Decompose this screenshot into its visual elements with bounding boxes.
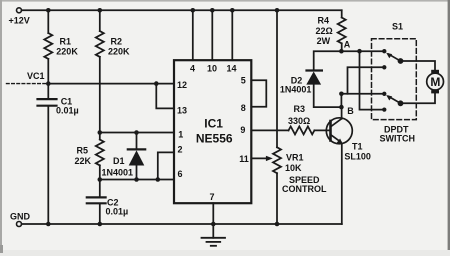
wire: bottom ground rail <box>22 223 342 225</box>
junction dots bottom rail <box>46 222 279 227</box>
svg-text:1: 1 <box>178 130 183 140</box>
wire: pin 6 line <box>100 179 174 181</box>
svg-text:SL100: SL100 <box>344 151 371 161</box>
wire: pin 10 supply <box>211 10 213 60</box>
svg-text:IC1: IC1 <box>204 116 223 130</box>
svg-text:B: B <box>347 106 354 116</box>
GND terminal <box>17 222 22 227</box>
resistor R1 <box>44 10 52 83</box>
svg-text:0.01µ: 0.01µ <box>56 105 79 115</box>
junction on A wire <box>357 49 362 54</box>
node VC1 dashed lead <box>7 83 49 85</box>
resistor R2 <box>96 10 104 132</box>
junction dots pin1 line <box>98 130 139 135</box>
svg-text:R3: R3 <box>294 104 306 114</box>
node A <box>339 49 344 54</box>
svg-text:VR1: VR1 <box>286 153 304 163</box>
wire: A jog to switch contact 4 <box>360 51 385 109</box>
wire: collector to node B <box>341 107 343 119</box>
svg-text:GND: GND <box>10 211 31 221</box>
svg-text:0.01µ: 0.01µ <box>106 206 129 216</box>
svg-text:14: 14 <box>227 63 237 73</box>
svg-text:R4: R4 <box>318 16 330 26</box>
resistor R4 <box>338 10 346 51</box>
svg-text:VC1: VC1 <box>27 71 45 81</box>
svg-text:A: A <box>344 39 351 49</box>
svg-text:CONTROL: CONTROL <box>282 184 327 194</box>
svg-text:22K: 22K <box>75 156 92 166</box>
svg-text:R1: R1 <box>60 37 72 47</box>
wire: pin 4 supply <box>192 10 194 60</box>
wire: B junction to switch contact 3 <box>341 93 384 95</box>
switch lever 1 <box>386 53 400 61</box>
svg-text:T1: T1 <box>352 142 363 152</box>
junction dots top rail <box>46 8 279 13</box>
wire: pins 5-8 bracket <box>251 80 266 107</box>
switch pole 2 <box>398 100 404 106</box>
wire: emitter to ground rail <box>341 144 343 224</box>
diode D1 <box>128 133 145 180</box>
svg-text:330Ω: 330Ω <box>288 116 310 126</box>
wire: pin 14 supply <box>231 10 233 60</box>
svg-text:5: 5 <box>241 76 246 86</box>
wire: pole 2 to motor <box>401 93 436 104</box>
ground symbol <box>202 238 226 246</box>
motor M1 <box>427 70 444 94</box>
junction at B cross <box>339 92 344 97</box>
+12V terminal <box>17 8 22 13</box>
switch pole 1 <box>398 58 404 64</box>
wire: VC1 node to pin 12 <box>48 83 174 85</box>
wire: B up to cross junction <box>340 94 342 107</box>
resistor R3 <box>289 126 315 134</box>
svg-text:R5: R5 <box>77 146 89 156</box>
wire: pin 11 to VR1 wiper <box>251 157 266 159</box>
svg-text:4: 4 <box>190 63 195 73</box>
wire: A to switch contact 1 <box>341 50 384 52</box>
svg-text:11: 11 <box>239 154 249 164</box>
svg-text:10K: 10K <box>285 163 302 173</box>
wire: pin 2 bracket <box>158 152 174 179</box>
svg-text:22Ω: 22Ω <box>316 26 333 36</box>
wire: branch to pin 13 <box>156 84 174 109</box>
wire: +12V down to VR1 <box>276 10 278 147</box>
svg-text:2W: 2W <box>317 36 331 46</box>
op IC1 NE556 box <box>174 60 251 203</box>
diode D2 <box>306 51 341 107</box>
svg-text:+12V: +12V <box>9 16 30 26</box>
svg-text:R2: R2 <box>111 37 123 47</box>
svg-text:8: 8 <box>241 103 246 113</box>
VR1 wiper arrow <box>266 156 273 161</box>
svg-text:2: 2 <box>178 145 183 155</box>
wire: B jog to switch contact 2 <box>348 67 385 94</box>
svg-text:S1: S1 <box>392 21 403 31</box>
svg-text:SWITCH: SWITCH <box>380 134 416 144</box>
wire: pin 9 to R3 <box>251 129 288 131</box>
capacitor C2 <box>87 180 106 225</box>
svg-text:NE556: NE556 <box>196 131 233 145</box>
svg-text:1N4001: 1N4001 <box>280 85 312 95</box>
wire: R3 to T1 base <box>314 129 330 131</box>
svg-text:D1: D1 <box>113 156 125 166</box>
wire: pin 7 to ground <box>212 203 214 238</box>
svg-text:9: 9 <box>240 125 245 135</box>
node B <box>339 105 344 110</box>
capacitor C1 <box>38 84 57 224</box>
wire: pole 1 to motor <box>401 61 436 70</box>
switch lever 2 <box>386 95 400 103</box>
potentiometer VR1 <box>273 147 281 224</box>
switch contact dots <box>382 49 386 112</box>
wire: top supply rail <box>22 9 342 11</box>
svg-text:220K: 220K <box>56 47 78 57</box>
svg-text:10: 10 <box>207 63 217 73</box>
wire: pin 1 line <box>100 132 174 134</box>
svg-text:M: M <box>430 75 440 89</box>
junction dots VC1 line <box>46 81 159 86</box>
junction dots pin6 line <box>98 177 161 182</box>
svg-text:12: 12 <box>177 80 187 90</box>
transistor T1 <box>326 118 352 144</box>
resistor R5 <box>96 133 104 180</box>
svg-text:1N4001: 1N4001 <box>102 168 134 178</box>
switch S1 dashed box <box>372 39 417 120</box>
svg-text:6: 6 <box>178 169 183 179</box>
svg-text:220K: 220K <box>108 47 130 57</box>
svg-text:13: 13 <box>177 105 187 115</box>
svg-text:7: 7 <box>210 192 215 202</box>
